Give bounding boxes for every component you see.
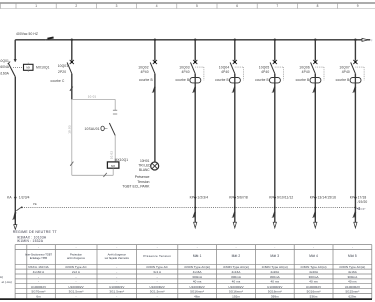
svg-text:-: - xyxy=(352,247,353,250)
svg-text:629m: 629m xyxy=(348,295,356,299)
svg-text:Mât 3: Mât 3 xyxy=(270,254,279,258)
svg-text:4x16A: 4x16A xyxy=(348,270,357,274)
svg-text:courbe B: courbe B xyxy=(175,78,189,82)
svg-text:MX: MX xyxy=(111,164,115,168)
svg-text:KA: KA xyxy=(7,196,12,200)
svg-text:Présence Tension: Présence Tension xyxy=(143,254,171,258)
svg-text:5G16mm²: 5G16mm² xyxy=(268,290,282,294)
svg-text:-: - xyxy=(38,280,39,284)
svg-text:40 ms: 40 ms xyxy=(348,280,357,284)
svg-text:iC60N Type AC(si): iC60N Type AC(si) xyxy=(262,265,288,269)
svg-text:U1000R2V: U1000R2V xyxy=(228,285,243,289)
svg-text:4P40: 4P40 xyxy=(261,70,269,74)
svg-text:iC60N Type AC(si): iC60N Type AC(si) xyxy=(339,265,365,269)
svg-text:MX10Q1: MX10Q1 xyxy=(36,66,50,70)
svg-text:40 ms: 40 ms xyxy=(309,280,318,284)
svg-text:U1000R2V: U1000R2V xyxy=(267,285,282,289)
svg-text:4x16A: 4x16A xyxy=(232,270,241,274)
svg-text:4: 4 xyxy=(156,4,158,8)
svg-text:sur façade d'armoire: sur façade d'armoire xyxy=(105,256,130,260)
svg-text:U1000R2V: U1000R2V xyxy=(68,285,83,289)
svg-text:iC60N Type AC: iC60N Type AC xyxy=(146,265,168,269)
svg-text:3G1.5mm²: 3G1.5mm² xyxy=(69,290,84,294)
svg-text:-: - xyxy=(75,280,76,284)
svg-text:10SAU01: 10SAU01 xyxy=(85,127,100,131)
svg-text:17/18: 17/18 xyxy=(358,196,367,200)
svg-text:4x16A: 4x16A xyxy=(193,270,202,274)
svg-text:IK1MIN : 1532A: IK1MIN : 1532A xyxy=(17,239,44,243)
svg-text:courbe B: courbe B xyxy=(215,78,229,82)
svg-text:TRI LED: TRI LED xyxy=(138,163,151,167)
svg-text:4x160A: 4x160A xyxy=(0,72,10,76)
svg-text:5: 5 xyxy=(196,4,198,8)
svg-text:4P40: 4P40 xyxy=(141,70,149,74)
svg-text:NSXm160NA: NSXm160NA xyxy=(0,65,10,69)
svg-text:REGIME DE NEUTRE TT: REGIME DE NEUTRE TT xyxy=(13,230,58,234)
svg-text:4P40: 4P40 xyxy=(342,70,350,74)
svg-text:8: 8 xyxy=(317,4,319,8)
svg-text:5/6/7/8: 5/6/7/8 xyxy=(237,196,248,200)
svg-text:9/10/11/12: 9/10/11/12 xyxy=(277,196,293,200)
svg-text:-: - xyxy=(38,247,39,250)
svg-text:399m: 399m xyxy=(271,295,279,299)
svg-text:-: - xyxy=(157,247,158,250)
svg-text:U1000R2V: U1000R2V xyxy=(109,285,124,289)
svg-text:2x2 A: 2x2 A xyxy=(72,270,80,274)
svg-text:40 ms: 40 ms xyxy=(271,280,280,284)
svg-text:-: - xyxy=(313,247,314,250)
svg-text:3G1.5mm²: 3G1.5mm² xyxy=(109,290,124,294)
svg-text:Mât 2: Mât 2 xyxy=(232,254,241,258)
svg-text:iC60N Type AC(si): iC60N Type AC(si) xyxy=(223,265,249,269)
svg-text:5G16mm²: 5G16mm² xyxy=(307,290,321,294)
svg-text:5G25mm²: 5G25mm² xyxy=(345,290,359,294)
svg-text:40 ms: 40 ms xyxy=(193,280,202,284)
svg-text:6m: 6m xyxy=(36,295,41,299)
svg-text:-: - xyxy=(197,247,198,250)
svg-text:2: 2 xyxy=(75,4,77,8)
svg-text:-: - xyxy=(38,275,39,279)
svg-text:courbe B: courbe B xyxy=(255,78,269,82)
svg-text:9: 9 xyxy=(357,4,359,8)
svg-text:1: 1 xyxy=(35,4,37,8)
svg-text:4P40: 4P40 xyxy=(221,70,229,74)
svg-text:Présence: Présence xyxy=(135,175,150,179)
svg-text:3x1 A: 3x1 A xyxy=(153,270,161,274)
svg-text:300mA: 300mA xyxy=(347,275,357,279)
svg-text:4x20A: 4x20A xyxy=(270,270,279,274)
svg-text:Mât 1: Mât 1 xyxy=(193,254,202,258)
svg-text:5G70mm²: 5G70mm² xyxy=(32,290,46,294)
svg-text:-: - xyxy=(274,247,275,250)
svg-text:46m: 46m xyxy=(194,295,200,299)
svg-text:3G1.5mm²: 3G1.5mm² xyxy=(150,290,165,294)
svg-text:-: - xyxy=(75,275,76,279)
svg-text:-: - xyxy=(116,247,117,250)
svg-text:iC60N Type AC(si): iC60N Type AC(si) xyxy=(301,265,327,269)
svg-text:10.01: 10.01 xyxy=(88,95,97,99)
svg-text:-: - xyxy=(236,247,237,250)
svg-text:5G16mm²: 5G16mm² xyxy=(229,290,243,294)
svg-text:courbe B: courbe B xyxy=(139,78,153,82)
svg-text:MX10Q1: MX10Q1 xyxy=(115,158,129,162)
svg-text:PE: PE xyxy=(33,202,37,206)
svg-text:10H01: 10H01 xyxy=(140,159,150,163)
svg-text:192m: 192m xyxy=(232,295,240,299)
svg-text:-: - xyxy=(116,265,117,269)
svg-text:1SEC10Q01: 1SEC10Q01 xyxy=(0,59,9,63)
svg-text:el (-ms): el (-ms) xyxy=(2,280,12,284)
svg-text:U1000R2V: U1000R2V xyxy=(150,285,165,289)
svg-text:TGBT ECL.PARK: TGBT ECL.PARK xyxy=(122,185,150,189)
svg-text:Inter-Sectionneur TGBT: Inter-Sectionneur TGBT xyxy=(25,252,52,256)
svg-text:U1000R2V: U1000R2V xyxy=(306,285,321,289)
svg-text:10.02: 10.02 xyxy=(109,151,113,160)
svg-text:U1000R2V: U1000R2V xyxy=(345,285,360,289)
svg-text:BLANC: BLANC xyxy=(139,168,150,172)
svg-text:A): A) xyxy=(0,275,3,279)
svg-text:10.03: 10.03 xyxy=(67,125,71,134)
svg-text:2P20: 2P20 xyxy=(58,70,66,74)
svg-text:U1000R2V: U1000R2V xyxy=(31,285,46,289)
svg-text:-: - xyxy=(116,270,117,274)
svg-text:Arrêt d'urgence: Arrêt d'urgence xyxy=(108,252,127,256)
svg-text:7: 7 xyxy=(276,4,278,8)
svg-text:Eclairage Y355: Eclairage Y355 xyxy=(30,256,48,260)
svg-text:iC60N Type AC(si): iC60N Type AC(si) xyxy=(184,265,210,269)
svg-text:MX: MX xyxy=(26,67,30,70)
svg-text:5G16mm²: 5G16mm² xyxy=(190,290,204,294)
svg-text:-: - xyxy=(116,295,117,299)
svg-text:Mât 4: Mât 4 xyxy=(309,254,318,258)
svg-text:6: 6 xyxy=(236,4,238,8)
svg-text:4x160 A: 4x160 A xyxy=(33,270,44,274)
svg-text:4P40: 4P40 xyxy=(182,70,190,74)
svg-text:N F°: N F° xyxy=(361,208,366,211)
svg-text:iC60N Type AC: iC60N Type AC xyxy=(65,265,87,269)
svg-text:10Q01: 10Q01 xyxy=(58,64,69,68)
svg-text:-: - xyxy=(75,295,76,299)
svg-text:-: - xyxy=(157,280,158,284)
svg-text:-: - xyxy=(157,275,158,279)
svg-text:Protection: Protection xyxy=(70,252,83,256)
svg-text:NSXm 160 NA: NSXm 160 NA xyxy=(28,265,48,269)
svg-text:-: - xyxy=(157,295,158,299)
svg-text:536m: 536m xyxy=(310,295,318,299)
svg-text:courbe B: courbe B xyxy=(296,78,310,82)
svg-text:300mA: 300mA xyxy=(270,275,280,279)
svg-text:Mât 5: Mât 5 xyxy=(348,254,357,258)
svg-text:40 ms: 40 ms xyxy=(232,280,241,284)
svg-text:-: - xyxy=(116,280,117,284)
svg-text:arrêt d'urgence: arrêt d'urgence xyxy=(67,256,85,260)
svg-text:/19/20: /19/20 xyxy=(358,200,368,204)
svg-text:4P40: 4P40 xyxy=(302,70,310,74)
svg-text:300mA: 300mA xyxy=(309,275,319,279)
svg-text:400Vac 50 HZ: 400Vac 50 HZ xyxy=(16,32,38,36)
svg-text:-: - xyxy=(116,275,117,279)
svg-text:300mA: 300mA xyxy=(192,275,202,279)
svg-text:-: - xyxy=(76,247,77,250)
svg-text:U1000R2V: U1000R2V xyxy=(190,285,205,289)
svg-text:courbe C: courbe C xyxy=(50,79,64,83)
svg-text:4x20A: 4x20A xyxy=(309,270,318,274)
svg-text:1/2/3/4: 1/2/3/4 xyxy=(197,196,208,200)
svg-text:3: 3 xyxy=(116,4,118,8)
svg-text:1/2/3/4: 1/2/3/4 xyxy=(19,196,30,200)
svg-text:300mA: 300mA xyxy=(231,275,241,279)
svg-text:13/14/15/16: 13/14/15/16 xyxy=(318,196,337,200)
svg-text:courbe B: courbe B xyxy=(336,78,350,82)
